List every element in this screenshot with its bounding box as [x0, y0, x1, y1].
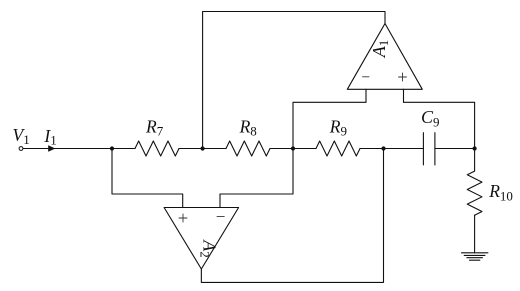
wire J3 down to A2 inverting input: [220, 149, 293, 208]
svg-text:A2: A2: [198, 239, 220, 258]
A2 minus sign: [217, 215, 224, 217]
resistor R7: [135, 141, 179, 156]
junction J2: [201, 146, 205, 150]
wire J1 down to A2 non-inverting input: [112, 149, 183, 208]
ground: [461, 253, 488, 260]
A1 minus sign: [363, 76, 370, 78]
junction J1: [110, 146, 114, 150]
svg-text:R8: R8: [239, 117, 257, 139]
wire R8 to junction J3: [270, 148, 316, 150]
wire A1 inverting input to J3: [293, 102, 366, 148]
wire R10 to ground: [474, 215, 476, 253]
resistor R10: [467, 171, 482, 215]
wire feedback: J2 up, across top, to A1 output apex: [203, 12, 385, 149]
junction J4: [381, 146, 385, 150]
wire A1 non-inverting input to J5: [404, 102, 475, 148]
wire R9 to junction J4: [360, 148, 423, 150]
capacitor C9: [423, 133, 435, 165]
A2 plus sign: [179, 214, 187, 222]
wire R7 to junction J2: [179, 148, 226, 150]
junction J5: [473, 146, 477, 150]
wire input terminal to junction J1: [23, 148, 112, 150]
svg-text:C9: C9: [421, 107, 440, 129]
wire J5 down to R10: [474, 149, 476, 172]
svg-text:R9: R9: [329, 117, 347, 139]
junction J3: [291, 146, 295, 150]
resistor R8: [226, 141, 270, 156]
current arrow I1: [48, 145, 55, 152]
A1 plus sign: [399, 73, 407, 81]
op-amp A1 non-inverting input pin: [403, 89, 405, 102]
wire J1 to resistor R7: [112, 148, 135, 150]
op-amp A1 inverting input pin: [365, 89, 367, 102]
svg-text:R7: R7: [145, 117, 164, 139]
svg-text:A1: A1: [369, 40, 391, 59]
op-amp A1 body: [347, 24, 422, 90]
terminal V1: [19, 147, 23, 151]
svg-text:V1: V1: [13, 125, 30, 147]
svg-text:R10: R10: [488, 181, 513, 203]
op-amp A2 body: [164, 208, 239, 270]
resistor R9: [316, 141, 360, 156]
svg-text:I1: I1: [43, 126, 56, 148]
wire A2 output to J4: [201, 149, 383, 283]
wire C9 to junction J5: [435, 148, 475, 150]
